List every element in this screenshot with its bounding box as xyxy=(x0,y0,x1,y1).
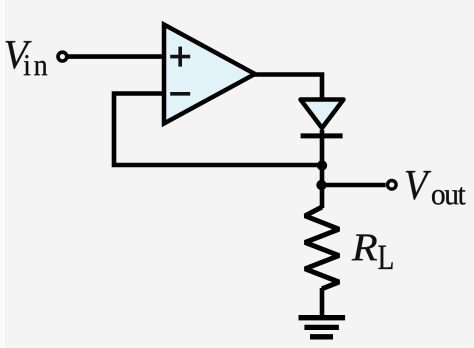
wire Vin to op-amp + input xyxy=(68,54,164,59)
wire resistor to ground xyxy=(320,288,325,316)
resistor RL zigzag xyxy=(305,207,339,289)
wire diode cathode down through nodes to resistor xyxy=(320,130,325,208)
label Vout xyxy=(406,171,466,205)
label Vin xyxy=(6,41,48,75)
ground xyxy=(299,318,346,337)
node junction dot output xyxy=(316,180,326,190)
op-amp U1 xyxy=(164,25,255,124)
wire op-amp output to diode anode xyxy=(253,75,322,102)
op-amp plus input marking xyxy=(170,47,190,67)
label RL xyxy=(352,235,393,270)
wire to Vout terminal xyxy=(322,183,386,188)
terminal Vout open circle xyxy=(388,181,397,190)
terminal Vin open circle xyxy=(58,52,67,61)
wire feedback loop from minus input to node below diode xyxy=(114,94,322,166)
diode D1 xyxy=(301,100,344,136)
node junction dot feedback xyxy=(317,160,327,170)
op-amp minus input marking xyxy=(170,92,190,96)
